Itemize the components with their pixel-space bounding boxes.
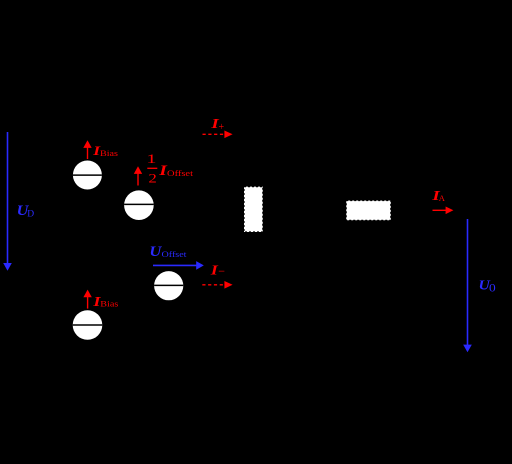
voltage arrow U_D xyxy=(3,132,12,271)
svg-text:Bias: Bias xyxy=(100,149,118,158)
label 1/2 I_Offset xyxy=(146,152,194,186)
current source 1/2 I_Offset (circle) xyxy=(124,190,154,220)
current arrow 1/2 I_Offset xyxy=(134,166,142,185)
label I_+ xyxy=(210,116,224,133)
wire: I_Bias+ source bottom to I_Bias- source top xyxy=(86,189,88,310)
label U_D xyxy=(17,203,35,220)
svg-text:1: 1 xyxy=(146,152,156,167)
current arrow I_Bias (lower) xyxy=(83,290,91,309)
label U_Offset xyxy=(149,244,187,260)
resistor R_out (horizontal, dashed border) xyxy=(346,201,391,221)
voltage arrow U_O xyxy=(463,219,472,352)
current arrow I_- (dashed) xyxy=(202,281,232,289)
svg-text:Offset: Offset xyxy=(162,250,188,259)
wire: 1/2 I_Offset source top to rail xyxy=(138,130,140,191)
svg-text:2: 2 xyxy=(148,172,156,186)
current arrow I_A xyxy=(433,207,454,215)
svg-text:−: − xyxy=(218,264,225,278)
wire: 1/2 I_Offset source bottom to input- rail xyxy=(138,220,140,286)
svg-text:+: + xyxy=(219,122,225,133)
resistor R_D (vertical, dashed border) xyxy=(244,187,263,232)
svg-text:D: D xyxy=(27,210,34,220)
current arrow I_+ (dashed) xyxy=(203,131,233,139)
label I_- xyxy=(210,263,226,277)
label I_Bias (lower) xyxy=(92,295,118,309)
wire: input- rail right segment to R_D bottom xyxy=(183,232,253,285)
label I_Bias (upper) xyxy=(92,144,118,158)
voltage arrow U_Offset xyxy=(153,261,204,270)
current source I_Bias- (circle) xyxy=(73,310,103,340)
label I_A xyxy=(431,188,446,204)
voltage source U_Offset (circle) xyxy=(154,271,183,300)
wire: input+ rail xyxy=(8,129,254,131)
wire: R_out right to output node xyxy=(391,209,468,211)
label U_0 xyxy=(479,278,496,294)
svg-text:A: A xyxy=(439,193,446,203)
wire: R_D top to input+ rail xyxy=(252,130,254,187)
svg-text:0: 0 xyxy=(489,281,496,294)
wire: I_Bias+ source top to rail xyxy=(86,130,88,161)
wire: amp output to R_out left xyxy=(300,209,346,211)
svg-text:Bias: Bias xyxy=(100,299,118,308)
node: output terminal xyxy=(467,210,469,216)
svg-text:Offset: Offset xyxy=(167,169,194,178)
current arrow I_Bias (upper) xyxy=(83,140,91,159)
wire: input- rail left segment xyxy=(8,284,155,286)
current source I_Bias+ (circle) xyxy=(73,161,102,190)
